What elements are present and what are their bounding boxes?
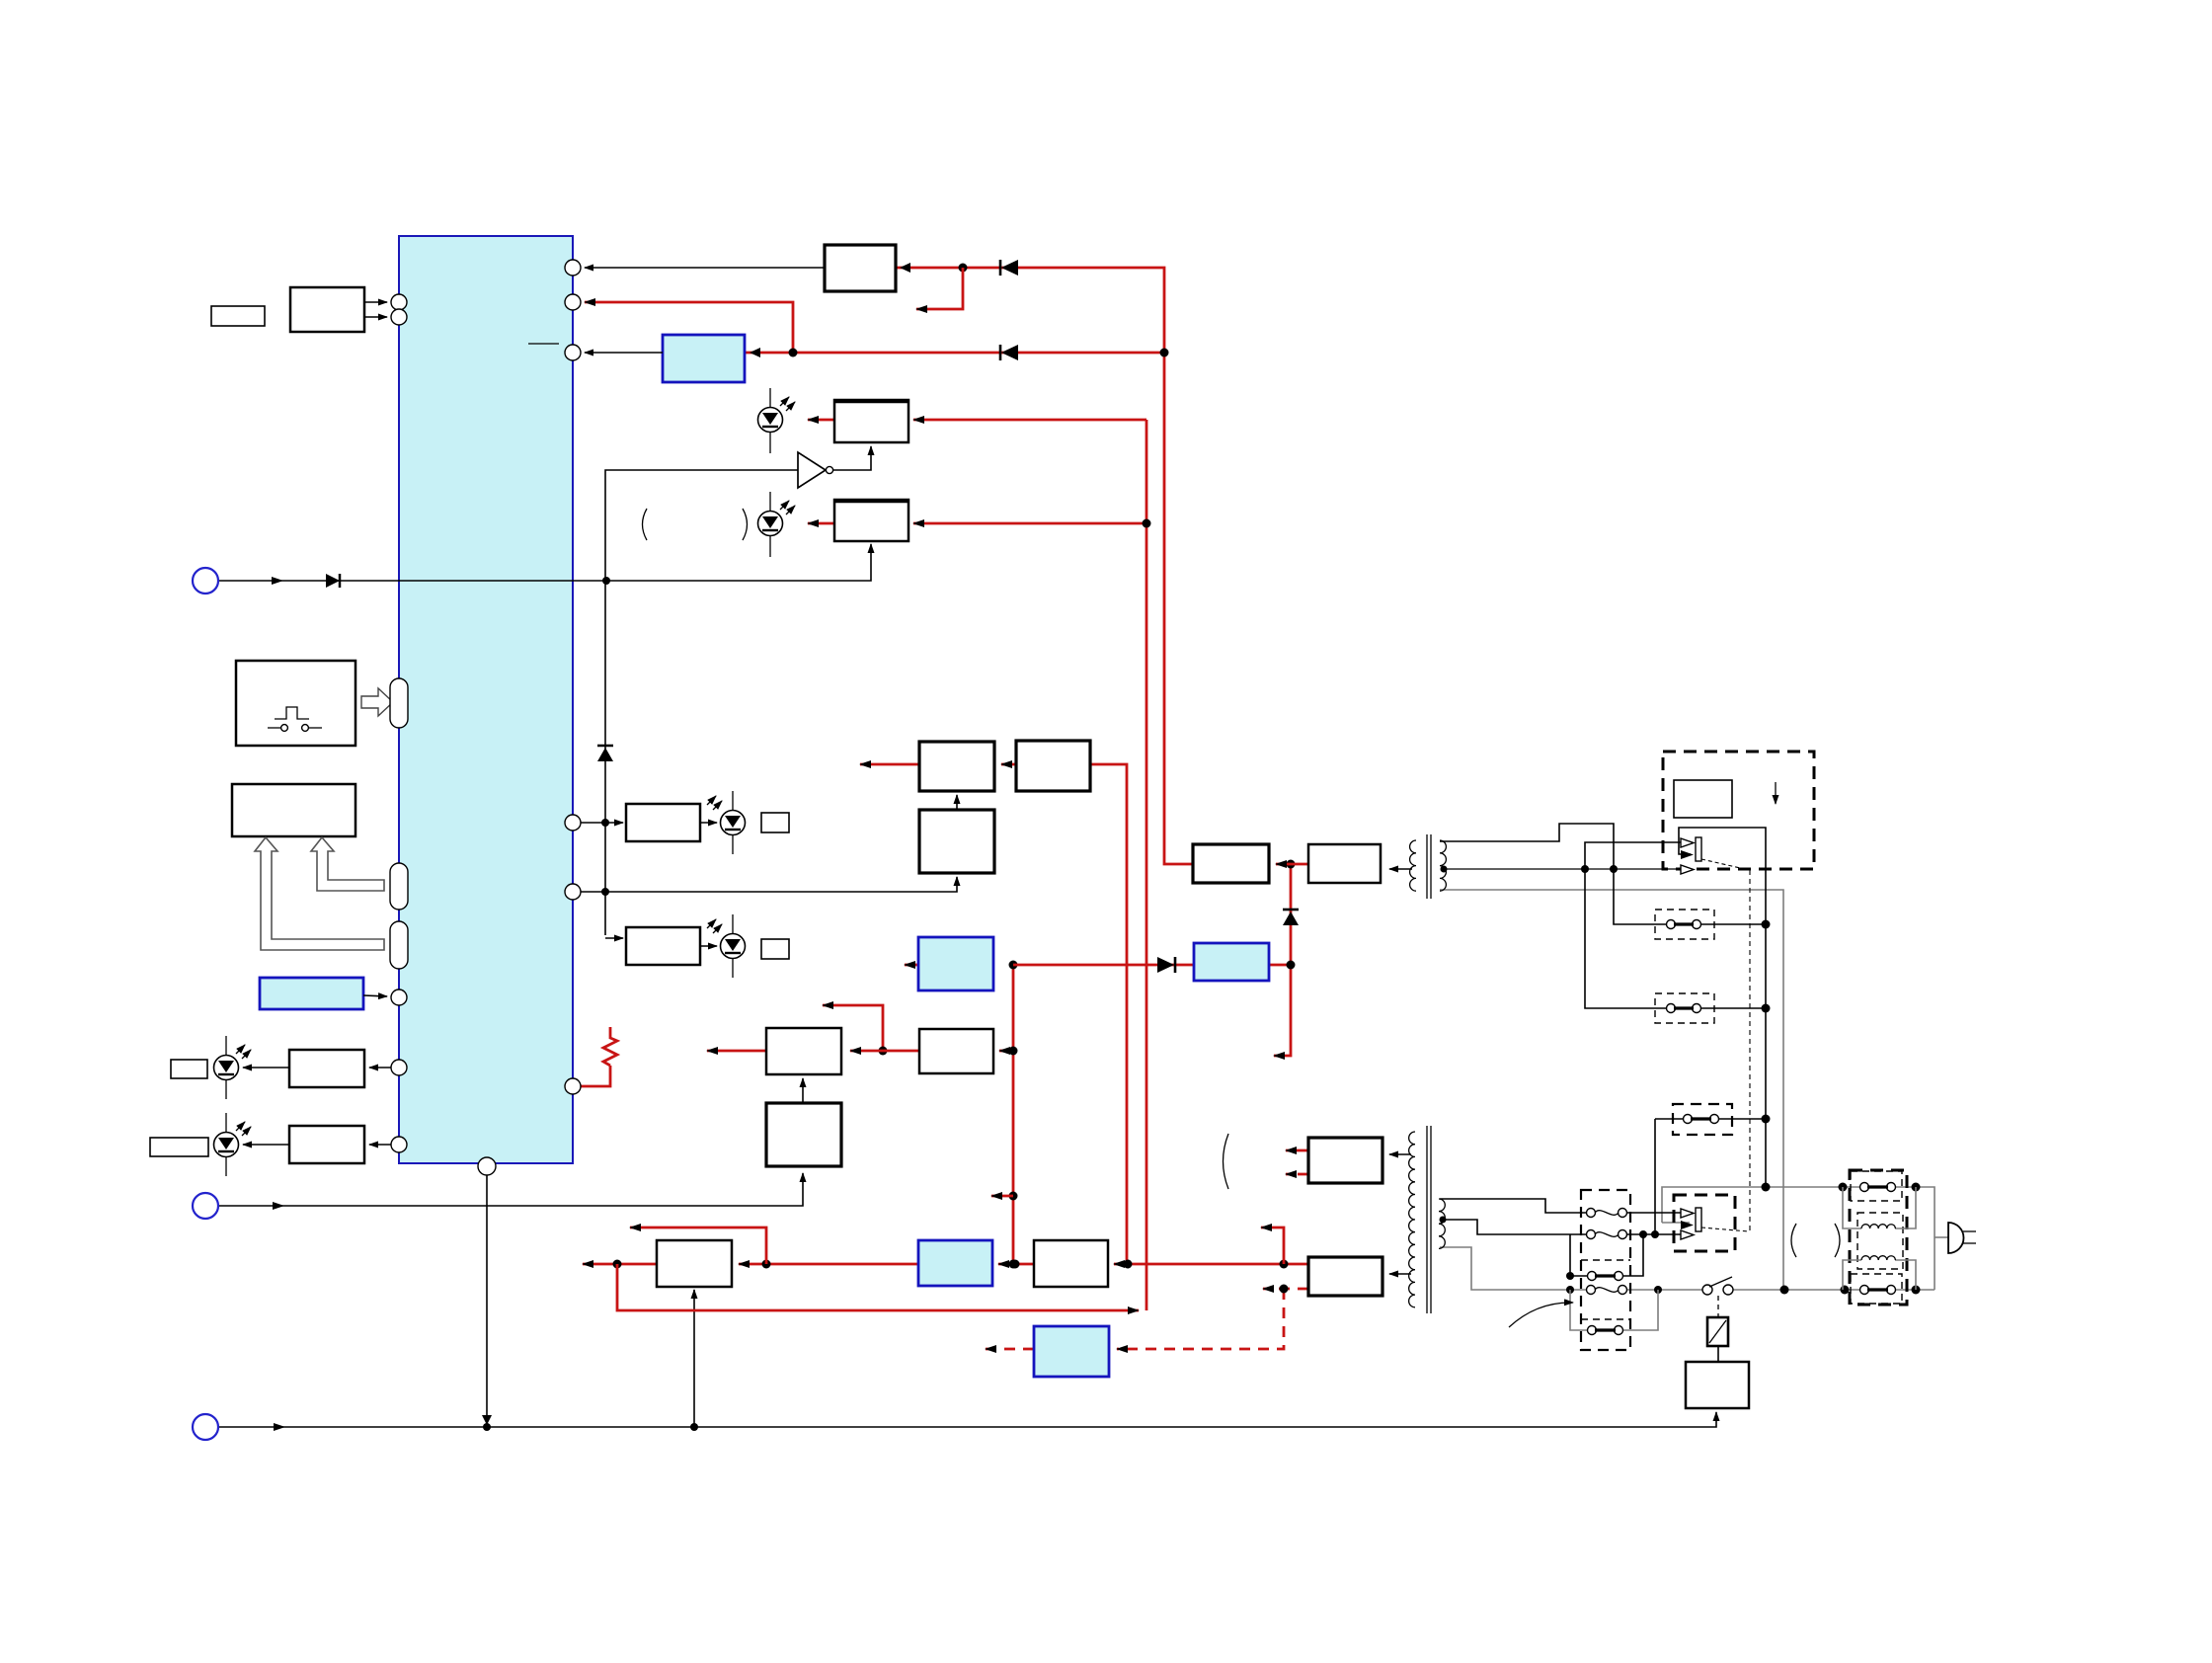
filter choke coil upper [1843, 1187, 1861, 1228]
junction [1009, 1047, 1018, 1056]
wire: bus branch up into box L2 [693, 1290, 695, 1427]
box U2 LED driver [834, 500, 908, 541]
box H6 small [150, 1138, 208, 1156]
terminal CN2 [193, 1193, 218, 1219]
junction [879, 1047, 888, 1056]
box U1 LED driver [834, 400, 908, 442]
junction [690, 1423, 698, 1431]
wire: terminal 3 bottom bus to relay drive box [218, 1412, 1716, 1427]
wire pin L5 to G2 [369, 1144, 391, 1146]
gray bypass contact s5 [1570, 1290, 1588, 1330]
junction [1160, 349, 1169, 357]
wire: IC bottom pin drop [486, 1175, 488, 1425]
pulse symbol [275, 707, 309, 719]
red wire cyan2R to X6 [1269, 964, 1291, 967]
red lower branch y1327 [617, 1264, 1139, 1310]
IC pins right [565, 260, 581, 276]
red links row y875 [1276, 863, 1291, 866]
red wire: LED2 feed [808, 522, 834, 525]
connector paren T902 area [1224, 1134, 1229, 1189]
mechanical dashed link [1749, 870, 1751, 1231]
outline arrow right [311, 837, 384, 891]
box A1 small [211, 306, 265, 326]
wire: terminal 2 line to box M [218, 1173, 803, 1206]
transformer T901 (standby) [1410, 834, 1448, 899]
box H5 small [171, 1060, 207, 1078]
red elbow at x776 [630, 1227, 766, 1264]
LED driver J2 [626, 927, 700, 965]
wire: contact s3 bypass [1570, 1234, 1588, 1276]
dashed link from switch to relay coil [1717, 1296, 1719, 1317]
wire box M to box L [802, 1078, 804, 1103]
cyan box 2L [918, 937, 993, 990]
wire J1 to LED3 [700, 822, 717, 824]
wire: inverter input branch vertical [605, 470, 798, 935]
wire: box W to box U vertical [956, 795, 958, 810]
block arrow key input [361, 688, 393, 716]
wire: pin R1 to box B001 [585, 267, 825, 269]
junction [1009, 1192, 1018, 1201]
wire: terminal line RESET from CN1 through diode D5 to inverter block [218, 544, 871, 581]
red wire: pin row 2 [585, 302, 793, 353]
red dashed T2a [1286, 1173, 1308, 1176]
red elbow X4 into row1064 [823, 1005, 883, 1051]
red vertical X6 with diode and end arrow [1274, 864, 1291, 1056]
gray rail y1202 [1662, 1187, 1864, 1223]
sw1 contact [1667, 920, 1676, 929]
filter contact c1 [1860, 1183, 1869, 1192]
IC U001 system control main block [399, 236, 573, 1163]
fuse F1 thermal [1587, 1286, 1596, 1295]
wire: T902 primary taps [1389, 1153, 1411, 1155]
red dashed from T2b to cyan4 [1263, 1288, 1308, 1291]
wire w1: T902 secondary top to thermal fuse f1 [1440, 1199, 1587, 1213]
red row cyan2L [905, 964, 918, 967]
arrow on wire [272, 577, 283, 585]
red wire: LED1 feed [808, 419, 834, 422]
red short arrow branch [991, 1195, 1013, 1198]
wire: T901 primary tap to box T1b [1389, 868, 1412, 870]
box T1b rectifier [1308, 844, 1381, 883]
wire: sw3 drop to fuse line [1654, 1119, 1656, 1234]
power switch S901 [1702, 1285, 1712, 1295]
wire w1: T901 secondary top to sw1 [1440, 824, 1669, 924]
relay contacts upper [1681, 838, 1694, 847]
cyan box F [260, 978, 363, 1009]
sw2 contact [1667, 1004, 1676, 1013]
wire: T901 secondary centre to relay tri3 [1444, 868, 1681, 870]
relay coil fuse box [1707, 1317, 1728, 1346]
cyan box 4 [1034, 1326, 1109, 1377]
box K1 small [761, 813, 789, 832]
gray AC line from transformer T901 secondary bottom [1440, 890, 1783, 1290]
box T1a rectifier [1193, 844, 1269, 883]
wire cyan F to pin [363, 995, 387, 996]
junction [789, 349, 798, 357]
IC pins left [391, 294, 407, 310]
box R2 reg [919, 1029, 993, 1073]
LED driver J1 [626, 804, 700, 841]
box A2 [290, 287, 364, 332]
inverter gate [798, 452, 826, 488]
diode D1a (pointing left) [1001, 260, 1018, 276]
wire: cyan H to pin R3 [585, 352, 663, 354]
red vertical X2 with branch rows [1145, 420, 1148, 1310]
red vertical X5 [1012, 965, 1015, 1264]
relay drive box [1686, 1362, 1749, 1408]
cyan box H regulator [663, 335, 745, 382]
wire: pin to LED driver J1 [581, 822, 623, 824]
relay coil box [1674, 780, 1732, 818]
LED driver G1 [289, 1050, 364, 1087]
wire: relay armature bus X7 [1679, 828, 1766, 1187]
red elbow with arrow [916, 268, 963, 309]
junction [1287, 961, 1296, 970]
IC pills [390, 678, 408, 728]
box W converter [919, 810, 994, 873]
junction [959, 264, 968, 273]
LED D2 with driver [758, 492, 796, 557]
box B001 top regulator [825, 245, 896, 291]
junction [601, 819, 609, 827]
connector parens LED row [643, 509, 648, 540]
box U 5V reg [919, 742, 994, 791]
LED D4 mid [707, 914, 746, 978]
red resistor from IC pin [581, 1066, 610, 1086]
junction [601, 888, 609, 896]
wire J2 to LED4 [700, 945, 717, 947]
red dashed out of cyan4 [986, 1348, 1034, 1351]
diode D5 [326, 574, 340, 588]
wire: relay row y853 and drop to sw2 [1585, 842, 1681, 1008]
wire pin L4 to G1 [369, 1067, 391, 1069]
display box [232, 784, 355, 836]
box L2 [657, 1240, 732, 1287]
relay arrow [1775, 782, 1777, 804]
red row y1064 [707, 1050, 766, 1053]
thermal unit dashed boxes [1581, 1190, 1630, 1350]
sw2 dashed box [1655, 993, 1714, 1023]
red bus: top row from B+ rail through diode to regulator box1 [896, 268, 1193, 864]
relay RY001 dashed box [1663, 752, 1814, 869]
terminal CN1 [193, 568, 218, 594]
junction [1287, 860, 1296, 869]
red row y774 regulators U,V and vertical X3 [860, 763, 919, 766]
relay RY002 dashed box [1674, 1195, 1735, 1251]
junction [483, 1423, 491, 1431]
terminal CN3 [193, 1414, 218, 1440]
box T2a rectifier [1308, 1138, 1382, 1183]
transformer T902 (main) [1409, 1126, 1447, 1313]
junctions gray rails [1780, 1286, 1789, 1295]
relay contacts lower [1681, 1209, 1694, 1218]
wire: inverter output to U1 [833, 446, 871, 470]
diode D2 on vertical (pointing up) [597, 748, 613, 761]
junction [602, 577, 610, 585]
cyan box 2R [1194, 943, 1269, 981]
box M converter [766, 1103, 841, 1166]
red wire T2a solid arrow [1286, 1149, 1308, 1152]
junction [1566, 1286, 1574, 1294]
cyan box 3 [918, 1240, 992, 1286]
filter contact c2 [1860, 1286, 1869, 1295]
sw1 dashed box [1655, 910, 1714, 939]
wires A2 to pins [364, 301, 387, 303]
box W2 [1034, 1240, 1108, 1287]
LED D6 indicator [214, 1113, 252, 1176]
wire G2 to LED6 [243, 1144, 289, 1146]
EMI filter dashed unit [1850, 1170, 1907, 1305]
box K2 small [761, 939, 789, 959]
gray rail y1306 power switch row [1440, 1247, 1591, 1290]
AC plug [1935, 1236, 1948, 1238]
junction [1009, 961, 1018, 970]
connector parens at filter [1791, 1224, 1796, 1257]
junction [1654, 1286, 1662, 1294]
wire: sw3 row [1655, 1118, 1684, 1120]
box T2b rectifier [1308, 1257, 1382, 1296]
IC bottom pin [478, 1157, 496, 1175]
junction [1143, 519, 1151, 528]
LED driver G2 [289, 1126, 364, 1163]
red elbow at x1300 [1261, 1227, 1284, 1264]
pin label overline inside U001 [528, 343, 559, 345]
annotation curved arrow [1509, 1303, 1573, 1327]
diode D3 (pointing right) [1157, 957, 1174, 973]
box V reg [1016, 741, 1090, 791]
LED D5 indicator [214, 1036, 252, 1099]
wire: pin row to box W [581, 877, 957, 892]
junctions on main row [613, 1260, 622, 1269]
LED D3 mid [707, 791, 746, 854]
outline arrow left [255, 837, 384, 950]
switch panel box [236, 661, 355, 746]
wire: branch into LED driver J2 [605, 937, 623, 939]
gray armature link lower relay [1662, 1222, 1690, 1224]
wire G1 to LED5 [243, 1067, 289, 1069]
wire w2: T902 secondary centre to fuse f2 [1443, 1220, 1587, 1234]
red row to cyan box H through diode [745, 352, 1164, 355]
filter choke coil lower [1843, 1260, 1861, 1290]
wire coil to drive box [1717, 1346, 1719, 1362]
diode D1b (pointing left) [1001, 345, 1018, 360]
LED D1 with driver [758, 388, 796, 453]
diode D4 (pointing up) [1283, 911, 1299, 925]
box L reg [766, 1028, 841, 1074]
red main row y1280 [583, 1263, 617, 1266]
sw3 dashed box [1673, 1104, 1732, 1135]
